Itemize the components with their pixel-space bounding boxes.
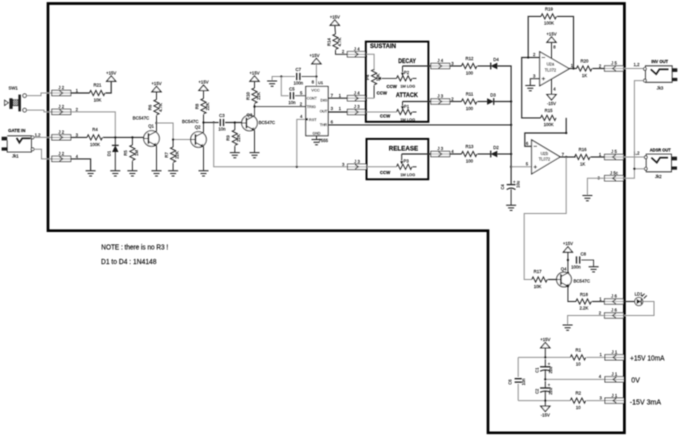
svg-text:GATE IN: GATE IN [8, 128, 26, 134]
connector J3 at release in [348, 159, 367, 170]
pin 5 label U2b [526, 162, 529, 167]
pin 3 label J3 release [342, 162, 345, 167]
svg-text:R17: R17 [534, 269, 542, 274]
svg-text:C8: C8 [581, 251, 587, 256]
svg-text:-15V 3mA: -15V 3mA [630, 399, 662, 406]
svg-text:100n: 100n [294, 81, 304, 86]
svg-text:CCW: CCW [380, 114, 391, 119]
connector J4 at DIS [347, 90, 366, 101]
wire release rail into box to P3 [367, 166, 397, 168]
switch SW1 [5, 86, 27, 112]
svg-text:RELEASE: RELEASE [389, 146, 419, 153]
capacitor C2 [535, 383, 553, 395]
transistor Q2 [182, 119, 206, 147]
wire Q2 emitter to ground [203, 147, 205, 171]
svg-text:4.7K: 4.7K [158, 103, 163, 112]
svg-text:J 3: J 3 [354, 159, 360, 164]
wire gate node rail [103, 136, 144, 138]
wire SW1 bottom to J2 pin 2 [26, 110, 52, 112]
svg-text:R15: R15 [545, 108, 553, 113]
pin 6 label U1 THR [331, 119, 334, 124]
wire OUT to J3 [328, 111, 347, 113]
wire U1 GND to ground [316, 136, 318, 140]
+15V supply at U2a [546, 31, 556, 42]
svg-text:J 3: J 3 [354, 104, 360, 109]
wire LD1 return loop [624, 302, 655, 316]
svg-text:C3: C3 [219, 113, 225, 118]
svg-text:0V: 0V [631, 378, 640, 385]
svg-text:J 4: J 4 [354, 47, 360, 52]
wire C7 to VCC [302, 76, 317, 78]
svg-text:1,2: 1,2 [634, 62, 641, 67]
wire U2a plus to ground [530, 79, 539, 86]
connector J2 pin 4 [52, 151, 79, 161]
wire R18 to J6 [592, 301, 605, 303]
note text [101, 244, 168, 266]
svg-text:J 3: J 3 [437, 146, 443, 151]
LED LD1 [635, 291, 647, 305]
ground at C8 [589, 267, 599, 272]
diode D2 [491, 145, 500, 157]
pin 4 label J3 release out [451, 149, 454, 154]
connector J3 at OUT [347, 104, 366, 115]
svg-text:OUT: OUT [320, 109, 328, 114]
connector J5 at INV OUT [605, 61, 624, 72]
IC U1 7555 timer [306, 80, 329, 143]
svg-text:R8: R8 [194, 103, 199, 109]
svg-text:22K: 22K [256, 92, 261, 100]
svg-text:R7: R7 [164, 152, 169, 158]
svg-text:TRIG: TRIG [307, 104, 316, 109]
svg-text:RST: RST [309, 117, 317, 122]
svg-text:Jk2: Jk2 [655, 174, 662, 179]
wire R2 to J1 [586, 400, 605, 402]
svg-text:C4: C4 [500, 184, 505, 190]
svg-text:C5: C5 [289, 86, 295, 91]
wire C5 to CONT [295, 95, 306, 97]
potentiometer P2 DECAY 1M LOG [387, 66, 417, 89]
svg-text:R13: R13 [466, 144, 474, 149]
wire J2 pin2 down to gate node [71, 112, 116, 137]
+15V supply at R10 [249, 70, 259, 81]
svg-text:1,2: 1,2 [35, 133, 42, 138]
svg-text:10: 10 [576, 405, 581, 410]
svg-text:10n: 10n [521, 378, 526, 386]
pin 6 label U2b [526, 141, 529, 146]
wire Q1 emitter to ground [156, 146, 158, 171]
svg-text:R6: R6 [147, 104, 152, 110]
ground at Q3 [250, 153, 260, 158]
svg-text:22K: 22K [205, 103, 210, 111]
ground at R5 [127, 171, 137, 176]
svg-text:DECAY: DECAY [398, 58, 416, 65]
connector J2 pin 3 [52, 130, 79, 140]
wire Q4 emitter to R18 [568, 286, 576, 301]
svg-text:22u: 22u [548, 388, 553, 395]
svg-text:1K: 1K [582, 73, 587, 78]
pin 3 label J5c [598, 175, 601, 180]
connector J4 at sustain top [347, 47, 366, 58]
wire J3 release out to R13 [450, 153, 462, 155]
transistor Q1 [133, 115, 160, 146]
jack Jk1 GATE IN [2, 128, 42, 159]
label 1,2 at Jk2 [634, 151, 641, 156]
capacitor C7 [294, 67, 304, 86]
svg-text:+15V: +15V [330, 14, 340, 19]
svg-text:C7: C7 [296, 67, 302, 72]
svg-text:SUSTAIN: SUSTAIN [370, 43, 396, 50]
svg-text:+15V: +15V [540, 337, 550, 342]
svg-text:1M LOG: 1M LOG [400, 117, 415, 122]
wire RST riser [297, 119, 306, 166]
transistor Q4 [557, 267, 590, 288]
capacitor C6 [508, 378, 526, 386]
ground at J2 pin 4 [86, 171, 96, 176]
transistor Q3 [242, 113, 275, 131]
svg-text:J 5c: J 5c [610, 170, 619, 175]
ground at Q1 [152, 171, 162, 176]
resistor R9 [226, 123, 242, 153]
svg-text:P4: P4 [365, 74, 370, 80]
wire D4 to envelope node [497, 66, 511, 101]
wire Jk1 tip to J2 pin 3 [34, 136, 52, 138]
+15V supply at power header [540, 337, 550, 348]
svg-text:-15V: -15V [547, 101, 556, 106]
svg-text:+15V: +15V [546, 31, 556, 36]
pin 5 label U1 CONT [300, 91, 303, 96]
-15V supply at power header [541, 406, 550, 418]
svg-text:INV OUT: INV OUT [651, 59, 668, 65]
svg-text:J 6: J 6 [611, 308, 617, 313]
wire Q3 collector to TRIG [253, 105, 305, 115]
ground at R7 [168, 171, 178, 176]
connector J3 at attack out [431, 94, 450, 105]
pin 3 label J1 minus [600, 395, 603, 400]
svg-text:22u: 22u [548, 367, 553, 374]
wire D2 to envelope node [497, 124, 512, 155]
resistor R6 [147, 92, 163, 123]
label 0V [631, 378, 640, 385]
resistor R11 [462, 91, 477, 111]
+15V supply at R21 [106, 70, 116, 81]
release panel box [367, 139, 429, 179]
wire C8 to ground [581, 260, 593, 267]
pin 2 label J3 attack [451, 96, 454, 101]
pin 2 label J6 return [599, 311, 602, 316]
ground at J6 return [563, 325, 573, 330]
op-amp U2a TL072 [540, 52, 574, 86]
svg-text:+: + [548, 361, 551, 366]
wire P2 wiper to J4 right [403, 65, 442, 67]
svg-text:J 4: J 4 [354, 90, 360, 95]
ground at J5c [582, 196, 592, 201]
ground at R9 [230, 153, 240, 158]
+15V supply at U1 VCC [309, 53, 321, 64]
svg-text:TL072: TL072 [539, 157, 551, 162]
svg-text:D3: D3 [490, 93, 496, 98]
wire P1 wiper to J3 right [403, 101, 442, 103]
svg-text:J 5: J 5 [611, 149, 617, 154]
pin 1 label J6 [599, 296, 602, 301]
capacitor C4 [500, 179, 520, 189]
wire Q1 collector to R6 [155, 122, 157, 131]
wire +15V rail [518, 348, 570, 359]
svg-text:7555: 7555 [319, 138, 329, 143]
pin 8 label U1 VCC [312, 80, 315, 85]
svg-text:R2: R2 [576, 391, 582, 396]
wire J2 pin4 to ground [71, 159, 91, 171]
svg-text:4.7K: 4.7K [337, 37, 342, 46]
ground at U2a plus [525, 86, 535, 91]
wire J4 top into box to P4 [366, 54, 374, 70]
wire sleeve bus Jk3 to Jk2 to J5c [624, 81, 645, 179]
resistor R20 [577, 59, 592, 78]
wire R16 to J5 [591, 156, 605, 158]
svg-text:Q4: Q4 [561, 267, 567, 272]
potentiometer P3 RELEASE 1M LOG [380, 154, 417, 177]
pin 3 label U1 OUT [331, 106, 334, 111]
wire D3 to envelope node [494, 100, 512, 102]
potentiometer P4 SUSTAIN 10K [365, 69, 396, 98]
svg-text:10K: 10K [375, 73, 380, 81]
pin 2 label U1 TRIG [300, 101, 303, 106]
svg-text:D1: D1 [106, 150, 111, 156]
svg-text:THR: THR [320, 122, 328, 127]
svg-text:R20: R20 [581, 59, 589, 64]
svg-text:J 4: J 4 [437, 58, 443, 63]
resistor R5 [123, 137, 139, 170]
capacitor C8 [571, 251, 586, 269]
svg-text:R18: R18 [580, 292, 588, 297]
svg-text:P2: P2 [404, 70, 410, 75]
pin 3 label U2a [533, 74, 536, 79]
wire U2a out to R20 [569, 68, 576, 70]
svg-text:10K: 10K [534, 284, 542, 289]
svg-text:J 2: J 2 [58, 85, 64, 90]
svg-text:10K: 10K [94, 98, 102, 103]
connector J1 0V [605, 372, 624, 383]
wire Q2 collector to RST and release [214, 123, 348, 168]
wire R12 to D4 [478, 65, 491, 67]
connector J1 +15V [605, 350, 624, 361]
svg-text:100K: 100K [90, 142, 100, 147]
diode D1 [106, 137, 118, 170]
svg-text:D1 to D4 : 1N4148: D1 to D4 : 1N4148 [101, 259, 157, 266]
pin 1 label J1 [600, 352, 603, 357]
wire J2 pin3 to R4 [71, 136, 87, 138]
svg-text:J 1: J 1 [612, 393, 618, 398]
svg-text:BC547C: BC547C [574, 278, 591, 283]
svg-text:ADSR OUT: ADSR OUT [650, 147, 671, 153]
ground at C4 [506, 205, 516, 210]
wire Jk1 sleeve to J2 pin 4 [34, 149, 52, 159]
svg-text:Q1: Q1 [148, 124, 154, 129]
resistor R2 [570, 391, 585, 410]
pin 1 label J5 adsr [599, 152, 602, 157]
sustain-decay-attack panel box [366, 42, 429, 122]
capacitor C5 [288, 86, 296, 105]
wire C7 to ground [272, 75, 295, 81]
wire C6 branch [517, 357, 519, 400]
svg-text:1M LOG: 1M LOG [400, 172, 415, 177]
svg-text:1K: 1K [580, 161, 585, 166]
wire OUT rail into box to P1 [366, 111, 396, 113]
potentiometer P1 ATTACK 1M LOG [380, 102, 417, 123]
wire C5 branch [281, 77, 288, 96]
svg-text:BC547C: BC547C [133, 115, 150, 120]
resistor R12 [462, 56, 477, 76]
svg-text:J 1: J 1 [612, 350, 618, 355]
svg-text:R10: R10 [245, 91, 250, 99]
svg-text:R4: R4 [92, 127, 98, 132]
connector J2 pin 1 [52, 85, 79, 96]
pin 1 label J4 [339, 93, 342, 98]
svg-text:Q2: Q2 [195, 124, 201, 129]
svg-text:+15V: +15V [563, 241, 573, 246]
resistor R10 [245, 81, 261, 106]
svg-text:+: + [548, 383, 551, 388]
svg-text:100n: 100n [571, 264, 581, 269]
pin 1 label J3 [339, 106, 342, 111]
svg-text:J 1: J 1 [612, 372, 618, 377]
svg-text:Jk3: Jk3 [657, 86, 664, 91]
label -15V 3mA [630, 399, 662, 406]
wire DIS rail into box to P4 bottom [366, 97, 374, 99]
wire J4 decay to R12 [450, 65, 462, 67]
svg-text:J 2: J 2 [58, 104, 64, 109]
svg-text:Jk1: Jk1 [12, 154, 19, 159]
pin 2 label J4 top [342, 49, 345, 54]
-15V supply at U2a [547, 95, 556, 107]
svg-text:R1: R1 [576, 347, 582, 352]
connector J5 at ADSR OUT [605, 149, 624, 160]
svg-text:10n: 10n [288, 100, 296, 105]
jack Jk3 INV OUT [644, 59, 678, 91]
wire R17 to Q4 base [548, 279, 557, 281]
pin 7 label U1 DIS [331, 93, 334, 98]
svg-text:CCW: CCW [380, 170, 391, 175]
diode D4 [491, 57, 500, 69]
resistor R18 [576, 292, 591, 310]
svg-text:+15V: +15V [249, 70, 259, 75]
connector J1 -15V [605, 393, 624, 404]
svg-text:NOTE : there is no R3 !: NOTE : there is no R3 ! [101, 244, 168, 251]
wire R1 to J1 [586, 356, 605, 358]
wire envelope node to U2b plus [511, 166, 531, 168]
wire SW1 top to J2 pin 1 [26, 93, 52, 96]
pin 2 label U2a [533, 52, 536, 57]
+15V supply at R6 [151, 81, 161, 92]
svg-text:R16: R16 [579, 147, 587, 152]
svg-text:+15V: +15V [198, 80, 208, 85]
wire U2b out to R16 [560, 156, 576, 158]
connector J3 at release out [431, 146, 450, 157]
wire R19 feedback [528, 16, 541, 57]
resistor R15 [541, 108, 556, 127]
svg-text:1M: 1M [134, 150, 139, 156]
pin 3 label J4 decay [451, 61, 454, 66]
svg-text:1M LOG: 1M LOG [400, 84, 415, 89]
wire Q1 collector to Q2 base [157, 123, 191, 141]
ground at Q2 [199, 171, 209, 176]
capacitor C1 [535, 361, 553, 373]
svg-text:100: 100 [466, 106, 474, 111]
svg-text:U2a: U2a [547, 61, 555, 66]
svg-text:+: + [513, 179, 516, 184]
svg-text:22K: 22K [175, 151, 180, 159]
wire J2 pin1 to R21 [71, 92, 90, 94]
connector J2 pin 2 [52, 104, 79, 115]
wire R13 to D2 [478, 153, 491, 155]
svg-text:CCW: CCW [377, 90, 388, 95]
resistor R1 [570, 347, 585, 366]
resistor R19 [541, 7, 556, 26]
svg-text:D2: D2 [493, 145, 499, 150]
svg-text:U1: U1 [318, 80, 324, 85]
wire U2a pin8 stem [551, 42, 553, 58]
wire Q3 emitter to ground [254, 130, 256, 152]
svg-text:R12: R12 [466, 56, 474, 61]
+15V supply at Q4 [563, 241, 573, 252]
svg-text:10n: 10n [218, 127, 226, 132]
wire J5 to Jk2 tip [624, 156, 645, 158]
svg-text:R14: R14 [326, 37, 331, 45]
connector J4 at decay out [431, 58, 450, 68]
svg-text:+15V 10mA: +15V 10mA [630, 355, 665, 362]
wire U2b out down to R17 [524, 157, 566, 280]
svg-text:22K: 22K [236, 134, 241, 142]
jack Jk2 ADSR OUT [644, 147, 677, 178]
svg-text:+15V: +15V [309, 53, 319, 58]
wire -15V stem [544, 401, 546, 407]
svg-text:2.2K: 2.2K [579, 306, 588, 311]
svg-text:J 3: J 3 [437, 94, 443, 99]
wire U2b pin6 feedback [525, 118, 568, 146]
svg-text:P1: P1 [404, 104, 410, 109]
svg-text:U2b: U2b [541, 151, 549, 156]
wire J6 to LD1 [624, 301, 635, 303]
pin 8 label U2a [553, 44, 556, 49]
wire J5 to Jk3 tip [624, 68, 644, 70]
svg-text:VCC: VCC [311, 88, 320, 93]
svg-text:TL072: TL072 [545, 67, 557, 72]
svg-text:DIS: DIS [320, 97, 327, 102]
resistor R8 [194, 91, 210, 123]
svg-text:LD1: LD1 [635, 291, 643, 296]
svg-text:P3: P3 [404, 159, 410, 164]
+15V supply at R8 [198, 80, 208, 91]
svg-text:10u: 10u [516, 181, 521, 188]
svg-text:C2: C2 [535, 388, 540, 394]
svg-text:BC547C: BC547C [182, 119, 199, 124]
svg-text:GND: GND [313, 130, 321, 135]
svg-text:J 2: J 2 [58, 130, 64, 135]
svg-text:-15V: -15V [541, 413, 550, 418]
svg-text:C6: C6 [508, 379, 513, 385]
resistor R4 [87, 127, 102, 147]
svg-text:SW1: SW1 [9, 86, 19, 91]
svg-text:D4: D4 [493, 57, 499, 62]
wire 0V rail [544, 359, 605, 380]
ground at D1 [110, 171, 120, 176]
svg-text:100K: 100K [544, 21, 554, 26]
op-amp U2b TL072 [532, 140, 565, 174]
ground at C7 [267, 81, 277, 86]
wire VCC stem [315, 64, 317, 87]
wire U2a minus input [527, 56, 540, 58]
svg-text:R21: R21 [94, 83, 102, 88]
svg-text:R19: R19 [545, 7, 553, 12]
